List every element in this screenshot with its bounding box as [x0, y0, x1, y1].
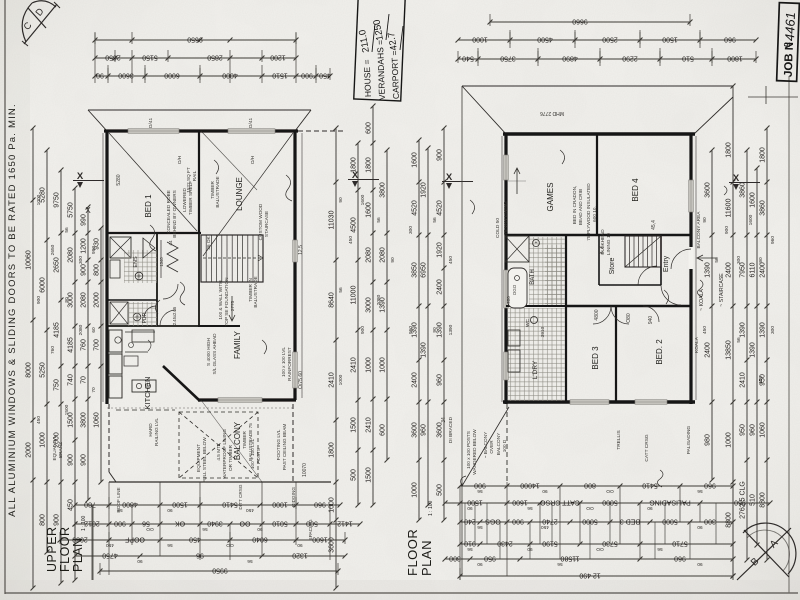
svg-text:700: 700 — [94, 339, 101, 351]
svg-text:ENS: ENS — [133, 256, 139, 268]
svg-text:FLOOR: FLOOR — [58, 526, 72, 572]
svg-text:FAMILY: FAMILY — [233, 330, 242, 359]
svg-text:3750: 3750 — [500, 55, 516, 62]
svg-text:960: 960 — [314, 501, 326, 508]
svg-text:8800: 8800 — [726, 512, 733, 528]
svg-text:5410: 5410 — [642, 482, 658, 489]
svg-text:1060: 1060 — [94, 412, 101, 428]
svg-text:5710: 5710 — [672, 540, 688, 547]
svg-text:~ KOALA: ~ KOALA — [699, 289, 705, 311]
svg-text:BRANZ: BRANZ — [58, 442, 63, 458]
svg-text:4500: 4500 — [537, 36, 553, 43]
svg-text:WANDERED BELOW: WANDERED BELOW — [472, 429, 477, 475]
svg-text:950: 950 — [484, 555, 496, 562]
svg-text:1000: 1000 — [338, 374, 344, 385]
svg-text:4185: 4185 — [68, 337, 75, 353]
svg-text:540: 540 — [462, 55, 474, 62]
svg-text:PLAN: PLAN — [71, 537, 85, 572]
svg-text:100 D: 100 D — [502, 439, 507, 452]
svg-text:1412: 1412 — [337, 520, 353, 527]
svg-text:56: 56 — [557, 561, 563, 567]
svg-text:980: 980 — [705, 434, 712, 446]
svg-text:1000: 1000 — [40, 432, 47, 448]
svg-text:BED 4: BED 4 — [631, 178, 640, 202]
svg-text:450: 450 — [448, 256, 454, 264]
svg-text:5410: 5410 — [222, 501, 238, 508]
svg-text:11580: 11580 — [560, 555, 579, 562]
svg-text:5150: 5150 — [142, 54, 158, 61]
svg-text:WATERPROOF LINING: WATERPROOF LINING — [222, 429, 227, 479]
svg-text:56: 56 — [527, 505, 533, 511]
svg-text:36 OK: 36 OK — [206, 235, 211, 249]
svg-text:56: 56 — [697, 488, 703, 494]
svg-text:4.5 MTL: 4.5 MTL — [216, 443, 221, 461]
svg-text:900: 900 — [437, 149, 444, 161]
svg-text:2410: 2410 — [351, 357, 358, 373]
svg-text:450: 450 — [106, 542, 114, 548]
svg-text:1000: 1000 — [366, 357, 373, 373]
svg-text:90: 90 — [137, 558, 143, 564]
svg-text:2290: 2290 — [622, 55, 638, 62]
svg-text:960: 960 — [750, 424, 757, 436]
svg-text:450: 450 — [246, 507, 254, 513]
svg-text:1600: 1600 — [312, 536, 328, 543]
svg-text:2400: 2400 — [437, 279, 444, 295]
svg-text:90: 90 — [64, 297, 70, 303]
svg-text:1200: 1200 — [270, 54, 286, 61]
svg-text:34: 34 — [441, 417, 447, 423]
svg-text:900: 900 — [68, 454, 75, 466]
svg-text:900: 900 — [114, 520, 126, 527]
svg-text:990: 990 — [91, 246, 97, 254]
svg-text:11030: 11030 — [329, 210, 336, 229]
svg-text:4800: 4800 — [122, 501, 138, 508]
svg-text:2500: 2500 — [602, 36, 618, 43]
svg-text:RAILING LVL: RAILING LVL — [154, 418, 159, 446]
svg-text:1500: 1500 — [351, 417, 358, 433]
svg-text:1000: 1000 — [726, 432, 733, 448]
svg-text:300: 300 — [770, 326, 776, 334]
svg-text:450: 450 — [758, 376, 764, 384]
svg-text:5010: 5010 — [272, 520, 288, 527]
svg-text:450: 450 — [702, 326, 708, 334]
svg-text:900: 900 — [512, 518, 524, 525]
svg-text:44: 44 — [168, 240, 173, 246]
svg-text:56: 56 — [202, 526, 208, 532]
svg-text:X: X — [85, 206, 91, 215]
svg-text:1800: 1800 — [726, 142, 733, 158]
svg-text:1000: 1000 — [412, 482, 419, 498]
svg-text:1200: 1200 — [81, 238, 88, 254]
svg-text:90: 90 — [257, 526, 263, 532]
svg-text:WC: WC — [525, 318, 531, 327]
svg-text:2410: 2410 — [366, 417, 373, 433]
svg-text:1060: 1060 — [760, 422, 767, 438]
svg-text:OO: OO — [586, 505, 594, 511]
svg-text:BED. 2: BED. 2 — [655, 339, 664, 365]
svg-text:9660: 9660 — [572, 18, 588, 25]
svg-text:1800: 1800 — [760, 147, 767, 163]
svg-text:90: 90 — [390, 257, 396, 263]
svg-text:4185: 4185 — [54, 322, 61, 338]
svg-text:10060: 10060 — [26, 250, 33, 270]
svg-text:RAIL: RAIL — [192, 170, 197, 181]
svg-text:90: 90 — [167, 507, 173, 513]
svg-text:56: 56 — [142, 520, 150, 527]
svg-text:5280: 5280 — [116, 174, 122, 185]
svg-text:56: 56 — [376, 217, 382, 223]
svg-text:56: 56 — [657, 546, 663, 552]
svg-text:O/H: O/H — [250, 156, 255, 164]
svg-text:OO: OO — [239, 520, 250, 527]
svg-text:1500: 1500 — [662, 36, 678, 43]
svg-text:OK: OK — [175, 520, 185, 527]
svg-text:9750: 9750 — [54, 192, 61, 208]
svg-text:780: 780 — [84, 501, 96, 508]
svg-text:3600: 3600 — [329, 537, 336, 553]
svg-text:750: 750 — [54, 379, 61, 391]
svg-text:980: 980 — [506, 296, 511, 304]
svg-text:OO: OO — [146, 526, 154, 532]
svg-text:BATH: BATH — [530, 269, 536, 285]
svg-text:ALL ALUMINIUM WINDOWS & SLIDIN: ALL ALUMINIUM WINDOWS & SLIDING DOORS TO… — [7, 103, 18, 517]
svg-text:300: 300 — [449, 555, 461, 562]
svg-text:2400: 2400 — [412, 372, 419, 388]
svg-text:2410: 2410 — [329, 372, 336, 388]
svg-text:4750: 4750 — [102, 552, 118, 559]
svg-text:1 : 100: 1 : 100 — [428, 500, 434, 516]
svg-text:DITT CRSG: DITT CRSG — [238, 484, 243, 510]
svg-text:960: 960 — [724, 36, 736, 43]
svg-text:BED 1: BED 1 — [144, 194, 153, 218]
svg-text:56: 56 — [477, 488, 483, 494]
svg-text:O/75 60: O/75 60 — [298, 371, 304, 389]
svg-text:LINING 10: LINING 10 — [606, 233, 611, 256]
svg-text:O/41: O/41 — [248, 117, 254, 128]
svg-text:1000: 1000 — [272, 501, 288, 508]
svg-text:3000: 3000 — [366, 297, 373, 313]
svg-text:MHD 2776: MHD 2776 — [540, 110, 564, 116]
svg-text:CONCEALED ROBE: CONCEALED ROBE — [166, 190, 171, 234]
svg-text:Entry: Entry — [663, 255, 670, 272]
svg-text:1390: 1390 — [750, 342, 757, 358]
svg-text:950: 950 — [740, 424, 747, 436]
svg-text:56: 56 — [467, 546, 473, 552]
svg-text:450: 450 — [36, 416, 42, 424]
svg-text:5250: 5250 — [40, 362, 47, 378]
svg-text:2.45x2.05: 2.45x2.05 — [172, 306, 177, 325]
svg-text:45,4: 45,4 — [651, 220, 657, 230]
svg-text:6110: 6110 — [750, 262, 757, 277]
svg-text:1000: 1000 — [472, 36, 488, 43]
svg-text:Store: Store — [609, 258, 616, 275]
svg-text:5190: 5190 — [542, 540, 558, 547]
svg-text:ROOF LINE: ROOF LINE — [116, 487, 121, 512]
svg-text:COLD 50: COLD 50 — [495, 218, 501, 238]
svg-text:900: 900 — [36, 296, 42, 304]
svg-text:9950: 9950 — [212, 567, 228, 574]
svg-text:60: 60 — [91, 327, 97, 333]
svg-text:90: 90 — [758, 257, 764, 263]
svg-text:450: 450 — [348, 236, 354, 244]
svg-text:960: 960 — [421, 424, 428, 436]
svg-text:4800: 4800 — [594, 309, 600, 320]
svg-text:2650: 2650 — [54, 257, 61, 273]
svg-text:450: 450 — [319, 72, 331, 79]
svg-text:1390: 1390 — [448, 324, 454, 335]
svg-text:1920: 1920 — [437, 242, 444, 258]
svg-text:2650: 2650 — [105, 54, 121, 61]
svg-text:BALUSTRADE 75: BALUSTRADE 75 — [248, 423, 253, 461]
svg-text:8800: 8800 — [760, 492, 767, 508]
svg-text:960: 960 — [770, 236, 776, 244]
svg-text:990: 990 — [81, 214, 88, 226]
svg-text:LOUNGE: LOUNGE — [235, 177, 244, 211]
svg-text:900: 900 — [54, 514, 61, 526]
svg-text:VERANDAHS =: VERANDAHS = — [375, 40, 387, 101]
svg-text:12,5: 12,5 — [298, 245, 304, 255]
svg-text:3600: 3600 — [705, 182, 712, 198]
svg-text:3850: 3850 — [412, 262, 419, 278]
svg-text:OO: OO — [226, 542, 234, 548]
svg-text:6000: 6000 — [164, 72, 180, 79]
svg-text:100 x 100 LVL: 100 x 100 LVL — [281, 347, 286, 377]
svg-text:KITCHEN: KITCHEN — [143, 377, 152, 410]
svg-text:1920: 1920 — [421, 182, 428, 198]
svg-text:FULL STEEL BELOW: FULL STEEL BELOW — [202, 437, 207, 483]
svg-text:HOUSE =: HOUSE = — [362, 59, 373, 97]
svg-text:2080: 2080 — [366, 247, 373, 263]
svg-text:2400: 2400 — [760, 262, 767, 278]
svg-text:4890: 4890 — [562, 55, 578, 62]
svg-text:75 PLYWOOD INSULATED: 75 PLYWOOD INSULATED — [586, 183, 591, 241]
svg-text:56: 56 — [247, 558, 253, 564]
svg-text:3800: 3800 — [81, 412, 88, 428]
svg-text:O/H: O/H — [177, 156, 182, 164]
svg-text:OO: OO — [596, 546, 604, 552]
svg-text:PALISADING: PALISADING — [686, 426, 692, 455]
svg-text:~ STAIRCASE: ~ STAIRCASE — [719, 273, 725, 307]
svg-text:100 & WALL WITH: 100 & WALL WITH — [218, 280, 223, 319]
svg-text:1500: 1500 — [64, 404, 70, 415]
svg-text:3600: 3600 — [437, 422, 444, 438]
svg-text:12 490: 12 490 — [579, 572, 601, 579]
svg-text:800: 800 — [94, 264, 101, 276]
svg-text:BALUSTRADE: BALUSTRADE — [215, 176, 220, 207]
svg-text:600: 600 — [366, 122, 373, 134]
svg-text:EQUAL LVL: EQUAL LVL — [52, 435, 57, 460]
svg-text:1800: 1800 — [366, 157, 373, 173]
svg-text:1522 SQ FT: 1522 SQ FT — [186, 167, 191, 193]
svg-text:GAMES: GAMES — [546, 183, 555, 212]
svg-text:800: 800 — [40, 514, 47, 526]
svg-text:3600: 3600 — [118, 72, 134, 79]
svg-text:1390: 1390 — [421, 342, 428, 358]
svg-text:5000: 5000 — [662, 518, 678, 525]
svg-text:56: 56 — [64, 227, 70, 233]
svg-text:TIMBER: TIMBER — [242, 431, 247, 449]
svg-text:2400: 2400 — [726, 262, 733, 278]
svg-text:2650: 2650 — [50, 244, 56, 255]
svg-text:56: 56 — [736, 337, 742, 343]
svg-text:8000: 8000 — [26, 362, 33, 378]
svg-text:56: 56 — [338, 287, 344, 293]
svg-text:90: 90 — [338, 197, 344, 203]
svg-text:900: 900 — [81, 454, 88, 466]
svg-text:PLAN: PLAN — [419, 540, 434, 576]
svg-text:4520: 4520 — [412, 200, 419, 216]
svg-text:3600: 3600 — [412, 422, 419, 438]
svg-text:500: 500 — [351, 469, 358, 481]
svg-text:600 10.: 600 10. — [592, 206, 597, 222]
svg-text:13850: 13850 — [726, 340, 733, 360]
svg-text:4461: 4461 — [782, 12, 798, 41]
svg-text:EQUIPMENT: EQUIPMENT — [196, 444, 201, 472]
svg-text:KOALA: KOALA — [694, 336, 700, 353]
svg-text:OOPF: OOPF — [125, 536, 145, 543]
svg-text:2000: 2000 — [26, 442, 33, 458]
svg-text:90: 90 — [432, 327, 438, 333]
svg-text:1510: 1510 — [272, 72, 288, 79]
svg-text:1000: 1000 — [36, 194, 42, 205]
svg-text:2775: 2775 — [230, 300, 235, 311]
svg-text:FOOTING LVL: FOOTING LVL — [276, 429, 281, 460]
svg-text:510: 510 — [750, 494, 757, 506]
svg-text:70: 70 — [91, 387, 97, 393]
svg-text:9650: 9650 — [187, 36, 203, 43]
svg-text:900: 900 — [81, 264, 88, 276]
svg-text:1320: 1320 — [292, 552, 308, 559]
svg-text:4500: 4500 — [351, 217, 358, 233]
svg-text:90: 90 — [542, 488, 548, 494]
svg-text:1600: 1600 — [412, 152, 419, 168]
svg-text:o: o — [781, 42, 790, 47]
svg-text:UPPER: UPPER — [45, 526, 59, 572]
svg-text:1600: 1600 — [512, 499, 528, 506]
svg-text:2410: 2410 — [740, 372, 747, 388]
svg-text:RAINFORREST: RAINFORREST — [287, 347, 292, 381]
svg-text:CARPORT =: CARPORT = — [389, 50, 401, 99]
svg-text:940: 940 — [648, 316, 654, 325]
svg-text:CUSTOM WOOD: CUSTOM WOOD — [258, 203, 263, 240]
svg-text:PALISADING: PALISADING — [649, 499, 691, 506]
svg-text:BED 3: BED 3 — [620, 518, 640, 525]
svg-text:450: 450 — [541, 524, 549, 530]
svg-text:OVER: OVER — [489, 440, 494, 454]
svg-text:510: 510 — [682, 55, 694, 62]
svg-text:960: 960 — [408, 326, 414, 334]
svg-text:1340: 1340 — [159, 257, 164, 267]
svg-text:960: 960 — [674, 555, 686, 562]
svg-text:90: 90 — [697, 524, 703, 530]
svg-text:BEHIND BY OWNERS: BEHIND BY OWNERS — [172, 190, 177, 238]
svg-text:450: 450 — [68, 499, 75, 511]
svg-text:1600: 1600 — [366, 202, 373, 218]
svg-text:3910: 3910 — [540, 326, 546, 337]
svg-text:90: 90 — [477, 561, 483, 567]
svg-text:POSTS: POSTS — [256, 448, 261, 464]
svg-text:75 VAN LINING: 75 VAN LINING — [503, 201, 509, 235]
svg-text:1390: 1390 — [705, 262, 712, 278]
svg-text:TOP SE FOUNDATION: TOP SE FOUNDATION — [224, 278, 229, 327]
svg-text:450: 450 — [189, 536, 201, 543]
svg-text:2850: 2850 — [207, 54, 223, 61]
svg-text:BALCONY AREA: BALCONY AREA — [696, 211, 702, 249]
svg-text:900: 900 — [360, 326, 366, 334]
svg-text:1500: 1500 — [366, 467, 373, 483]
svg-text:2000: 2000 — [94, 292, 101, 308]
svg-text:4520: 4520 — [437, 200, 444, 216]
svg-text:O80: O80 — [626, 313, 632, 323]
svg-text:90: 90 — [297, 542, 303, 548]
svg-text:300: 300 — [78, 256, 84, 264]
svg-text:740: 740 — [68, 374, 75, 386]
svg-text:600: 600 — [380, 424, 387, 436]
svg-text:960: 960 — [704, 482, 716, 489]
svg-text:500: 500 — [437, 484, 444, 496]
svg-text:56: 56 — [167, 542, 173, 548]
svg-text:960: 960 — [734, 499, 746, 506]
svg-text:1390: 1390 — [760, 322, 767, 338]
svg-text:300: 300 — [736, 256, 742, 264]
svg-text:2080: 2080 — [78, 324, 84, 335]
svg-text:3860: 3860 — [740, 182, 747, 198]
svg-text:300: 300 — [704, 518, 716, 525]
svg-text:2080: 2080 — [380, 247, 387, 263]
svg-text:1600: 1600 — [750, 192, 757, 208]
svg-text:CATT CRSG: CATT CRSG — [644, 434, 650, 462]
svg-text:OR TIMBER: OR TIMBER — [228, 444, 233, 471]
svg-text:1600: 1600 — [748, 214, 754, 225]
svg-text:~ BALCONY: ~ BALCONY — [483, 431, 488, 458]
svg-text:900: 900 — [301, 72, 313, 79]
svg-text:90: 90 — [697, 561, 703, 567]
svg-text:S 4000 HIGH: S 4000 HIGH — [206, 338, 211, 366]
svg-text:OO: OO — [606, 488, 614, 494]
svg-text:BALCONY: BALCONY — [233, 421, 242, 460]
svg-text:2400: 2400 — [705, 342, 712, 358]
svg-text:760: 760 — [81, 339, 88, 351]
svg-text:8640: 8640 — [329, 292, 336, 308]
svg-text:1390: 1390 — [740, 322, 747, 338]
svg-text:910: 910 — [464, 540, 476, 547]
svg-text:2080: 2080 — [376, 294, 382, 305]
svg-text:70: 70 — [81, 376, 88, 384]
svg-text:2080: 2080 — [68, 247, 75, 263]
svg-text:3860: 3860 — [760, 200, 767, 216]
svg-text:6950: 6950 — [421, 262, 428, 278]
svg-text:BEAD AND CRIB: BEAD AND CRIB — [578, 189, 583, 225]
svg-text:1800: 1800 — [329, 442, 336, 458]
svg-text:2080: 2080 — [81, 292, 88, 308]
svg-text:960: 960 — [437, 374, 444, 386]
svg-text:HARD: HARD — [148, 423, 153, 437]
svg-text:11000: 11000 — [351, 285, 358, 304]
svg-text:1000: 1000 — [380, 357, 387, 373]
svg-text:1 : 100: 1 : 100 — [81, 515, 87, 531]
svg-text:90: 90 — [702, 217, 708, 223]
svg-text:S/L GLASS AHEAD: S/L GLASS AHEAD — [212, 333, 217, 375]
svg-text:760: 760 — [50, 346, 56, 354]
svg-text:OGO: OGO — [512, 284, 517, 295]
svg-text:BED IN CRADON,: BED IN CRADON, — [572, 186, 577, 225]
svg-text:800: 800 — [584, 482, 596, 489]
svg-text:90: 90 — [467, 505, 473, 511]
svg-text:14000: 14000 — [520, 482, 540, 489]
svg-text:+: + — [535, 240, 538, 246]
svg-text:11600: 11600 — [726, 198, 733, 217]
svg-text:TRELLIS: TRELLIS — [616, 430, 622, 449]
